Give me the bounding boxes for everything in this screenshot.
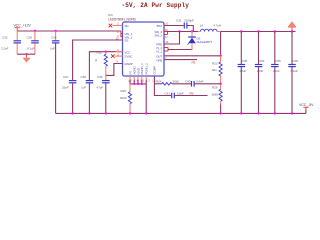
wire PGND_2 to bus	[145, 84, 147, 114]
svg-text:LM2576MH_NOPB: LM2576MH_NOPB	[108, 18, 136, 22]
svg-text:C30: C30	[27, 35, 33, 39]
wire COMP pin down	[154, 76, 171, 96]
node dot PRE-SW	[178, 30, 180, 32]
capacitor C32	[1, 31, 21, 54]
svg-text:FB: FB	[192, 61, 196, 65]
capacitor C35	[238, 32, 248, 114]
svg-text:R: R	[95, 58, 98, 62]
svg-text:C35: C35	[242, 59, 248, 63]
wire bottom pin bus	[130, 83, 146, 85]
wire C34 down to bottom bus	[55, 43, 57, 113]
svg-text:1k65: 1k65	[212, 92, 219, 96]
IC bottom pin names rotated	[128, 63, 156, 75]
svg-text:5k1: 5k1	[212, 68, 217, 72]
svg-text:R22: R22	[97, 51, 103, 55]
svg-text:SL44-E3/57T: SL44-E3/57T	[197, 40, 213, 44]
wire NFB pin with net label	[164, 56, 197, 65]
svg-text:IC4: IC4	[108, 13, 113, 17]
pin BST wire and capacitor C31	[164, 19, 194, 32]
wire gnd join under C32 C30	[17, 53, 35, 55]
pin SD no-connect X	[109, 22, 123, 28]
pins SW_1 SW_2 bracket	[164, 28, 168, 39]
wire bottom bus	[56, 112, 306, 114]
svg-text:FB: FB	[190, 91, 194, 95]
IC right pin names	[154, 24, 162, 62]
node dot FB divider	[219, 83, 221, 85]
power flag GND arrow	[288, 22, 296, 32]
svg-text:0.1uF: 0.1uF	[27, 47, 35, 51]
svg-text:33nF: 33nF	[62, 86, 69, 90]
capacitor C55	[271, 32, 281, 114]
wire input rail +12V	[17, 30, 121, 32]
IC left pin names	[125, 24, 134, 66]
svg-text:10: 10	[116, 36, 119, 40]
wire PRE pin	[164, 32, 180, 45]
svg-text:R26: R26	[212, 85, 218, 89]
pin VCC stub	[116, 48, 123, 52]
resistor R26	[212, 84, 223, 114]
resistor R24	[154, 80, 179, 86]
node dot OUT join	[219, 55, 221, 57]
svg-text:R25: R25	[121, 89, 127, 93]
node dot gnd join	[25, 53, 27, 55]
svg-text:C34: C34	[51, 35, 57, 39]
svg-text:PGND_2: PGND_2	[145, 63, 149, 75]
svg-text:36k5: 36k5	[173, 80, 180, 84]
svg-text:VCC_-5V: VCC_-5V	[299, 103, 314, 107]
capacitor C41	[165, 91, 208, 98]
svg-text:1uF: 1uF	[50, 47, 55, 51]
VIN bracket wires	[117, 30, 123, 38]
pin SYNC no-connect X	[111, 52, 123, 58]
svg-text:3.9nF: 3.9nF	[196, 80, 204, 84]
wire RAMP pin branch	[106, 64, 123, 76]
wire output rail	[221, 31, 296, 33]
svg-text:9k09: 9k09	[120, 96, 127, 100]
svg-text:C41: C41	[165, 91, 171, 95]
node dot C54	[257, 30, 259, 32]
svg-text:C40: C40	[185, 80, 191, 84]
svg-text:COMP: COMP	[153, 66, 157, 75]
capacitor C34	[50, 31, 59, 51]
svg-text:BST: BST	[157, 24, 163, 28]
power flag VCC_+12V	[14, 24, 32, 31]
svg-text:C36: C36	[293, 59, 299, 63]
svg-text:1uF: 1uF	[81, 86, 86, 90]
wire SW node	[168, 31, 199, 33]
svg-text:PGND_1: PGND_1	[140, 63, 144, 75]
svg-text:C31: C31	[176, 19, 182, 23]
svg-text:IS_1: IS_1	[156, 50, 162, 54]
node dot C30 rail junction	[34, 30, 36, 32]
svg-text:2.2uF: 2.2uF	[1, 47, 9, 51]
resistor R25	[120, 84, 132, 114]
node dot R22 top	[105, 51, 107, 53]
svg-text:2200pF: 2200pF	[184, 19, 194, 23]
svg-text:19: 19	[165, 40, 168, 44]
node dots bottom bus	[71, 112, 73, 114]
diode D6	[188, 32, 213, 51]
svg-text:NFB: NFB	[156, 58, 162, 62]
capacitor C38	[81, 75, 94, 113]
resistor R23	[212, 56, 222, 84]
capacitor C54	[255, 32, 265, 114]
node dot diode-SW	[191, 30, 193, 32]
wire VCC net	[89, 52, 122, 80]
svg-text:10pF: 10pF	[177, 91, 184, 95]
svg-text:RAMP: RAMP	[125, 62, 133, 66]
svg-text:SYNC: SYNC	[125, 55, 134, 59]
svg-text:R24: R24	[156, 80, 162, 84]
wire output cap branch C35	[240, 30, 242, 32]
wire OUT pin	[164, 55, 221, 57]
capacitor C30	[27, 31, 39, 54]
capacitor C39	[97, 75, 110, 113]
svg-text:R23: R23	[212, 62, 218, 66]
capacitor C36	[288, 32, 298, 114]
capacitor C40	[172, 80, 221, 87]
node dot C55	[274, 30, 276, 32]
svg-text:SW_1: SW_1	[154, 34, 162, 38]
node dots pin bus	[133, 83, 135, 85]
svg-text:C39: C39	[97, 75, 103, 79]
svg-text:47pF: 47pF	[97, 86, 104, 90]
op-amp U1 : IC4 LM2576MH box	[108, 13, 164, 76]
svg-text:SS: SS	[125, 39, 129, 43]
svg-text:L4: L4	[200, 23, 204, 27]
svg-text:-5V, 2A Pwr Supply: -5V, 2A Pwr Supply	[122, 2, 190, 9]
svg-text:C38: C38	[81, 75, 87, 79]
svg-text:22uF: 22uF	[240, 69, 247, 73]
svg-text:22uF: 22uF	[257, 69, 264, 73]
ground	[23, 54, 30, 62]
node dot C34 rail junction	[54, 30, 56, 32]
wire SS net	[73, 40, 123, 80]
power flag VCC_-5V	[299, 103, 314, 114]
svg-text:20: 20	[165, 22, 168, 26]
resistor R22	[95, 51, 107, 76]
svg-text:C32: C32	[2, 35, 8, 39]
svg-text:3.3uF: 3.3uF	[290, 69, 298, 73]
node dot gnd arrow	[291, 30, 293, 32]
svg-text:15 14 13 12 11: 15 14 13 12 11	[128, 80, 156, 83]
svg-text:17: 17	[165, 35, 168, 39]
wire L4 node down to OUT	[220, 32, 222, 56]
wire IS pins to diode anode	[164, 48, 192, 52]
svg-text:C55: C55	[275, 59, 281, 63]
svg-text:C37: C37	[63, 75, 69, 79]
bottom pins stubs	[128, 76, 156, 83]
svg-text:C54: C54	[259, 59, 265, 63]
capacitor C37	[62, 75, 76, 113]
inductor L4	[200, 23, 221, 31]
svg-text:22uF: 22uF	[273, 69, 280, 73]
svg-text:4.7uH: 4.7uH	[213, 23, 221, 27]
